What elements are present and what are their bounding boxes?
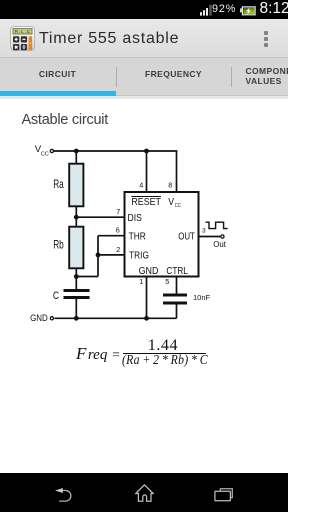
junction top rail at pin4 — [144, 149, 149, 154]
wire cap 10nF to ground — [176, 304, 178, 318]
IC 555 box — [125, 192, 199, 277]
tab CIRCUIT — [0, 69, 115, 79]
tab FREQUENCY — [116, 69, 231, 79]
wire Rb to cap C — [75, 268, 77, 290]
svg-text:Ra: Ra — [53, 177, 64, 191]
wire pin8 riser — [176, 151, 178, 192]
wire pin1 to ground — [146, 277, 148, 319]
signal strength icon — [198, 2, 214, 18]
wire trig junction vertical — [97, 236, 99, 277]
clock text — [260, 0, 290, 18]
output waveform symbol — [206, 222, 228, 228]
heading — [22, 112, 109, 128]
svg-text:RESET: RESET — [131, 197, 161, 208]
battery icon — [239, 3, 257, 16]
svg-text:10nF: 10nF — [193, 293, 211, 302]
capacitor 10nF plates — [163, 295, 187, 303]
svg-text:6: 6 — [116, 226, 120, 235]
svg-text:Rb: Rb — [53, 237, 64, 251]
junction ground at pin1 — [144, 316, 149, 321]
app icon — [10, 26, 35, 51]
capacitor C plates — [64, 291, 90, 298]
svg-text:C: C — [53, 290, 59, 302]
wire Vcc top rail — [54, 150, 177, 152]
wire ground rail — [55, 317, 177, 319]
svg-text:TRIG: TRIG — [129, 250, 149, 261]
navigation bar — [0, 473, 288, 512]
wire THR pin6 — [98, 235, 125, 237]
svg-text:3: 3 — [202, 227, 206, 234]
svg-text:5: 5 — [165, 277, 169, 286]
status bar — [0, 0, 288, 19]
svg-text:R.L.C: R.L.C — [15, 29, 31, 34]
formula Freq = 1.44 / ((Ra+2*Rb)*C) — [76, 344, 120, 364]
battery percent text — [212, 3, 238, 15]
svg-text:GND: GND — [30, 313, 48, 323]
terminal Vcc — [50, 149, 53, 152]
tab divider 2 — [231, 67, 232, 87]
terminal GND — [50, 317, 53, 320]
svg-text:V: V — [168, 197, 174, 208]
svg-text:Out: Out — [213, 240, 226, 249]
nav home icon — [135, 484, 154, 503]
wire pin5 to cap — [176, 277, 178, 295]
tab divider 1 — [116, 67, 117, 87]
wire C to ground — [75, 299, 77, 319]
wire OUT pin3 — [200, 236, 221, 238]
tab strip — [0, 58, 288, 96]
circuit schematic — [0, 140, 288, 375]
pin label Vcc inside IC — [168, 197, 180, 209]
wire Ra to Rb — [75, 206, 77, 227]
junction Rb-C — [74, 274, 79, 279]
junction TRIG — [96, 253, 101, 258]
nav recents icon — [214, 488, 233, 502]
overflow menu dots — [264, 31, 268, 35]
resistor Ra — [69, 164, 83, 207]
label Vcc — [35, 144, 49, 158]
svg-text:THR: THR — [129, 231, 146, 242]
svg-text:CC: CC — [175, 203, 181, 209]
selected tab indicator — [0, 91, 116, 96]
wire pin4 riser — [146, 151, 148, 192]
svg-text:8: 8 — [168, 180, 172, 189]
nav back icon — [52, 486, 76, 503]
svg-text:OUT: OUT — [178, 231, 195, 242]
svg-text:1: 1 — [139, 277, 143, 286]
svg-text:DIS: DIS — [128, 213, 143, 224]
junction top rail at Ra — [74, 149, 79, 154]
svg-text:4: 4 — [139, 180, 143, 189]
action bar — [0, 19, 288, 58]
wire TRIG pin2 — [98, 254, 125, 256]
resistor Rb — [69, 227, 83, 269]
wire Ra top lead — [75, 151, 77, 164]
wire DIS pin7 — [76, 216, 124, 218]
app title — [39, 30, 179, 48]
terminal Out — [221, 235, 224, 238]
svg-text:CC: CC — [41, 151, 49, 157]
wire trig junction horizontal — [76, 276, 98, 278]
svg-text:2: 2 — [116, 245, 120, 254]
svg-text:7: 7 — [116, 207, 120, 216]
junction ground at C — [74, 316, 79, 321]
tab COMPONENT VALUES — [246, 66, 320, 86]
svg-text:CTRL: CTRL — [166, 266, 188, 277]
svg-text:GND: GND — [139, 266, 159, 277]
junction Ra-Rb DIS — [74, 215, 79, 220]
